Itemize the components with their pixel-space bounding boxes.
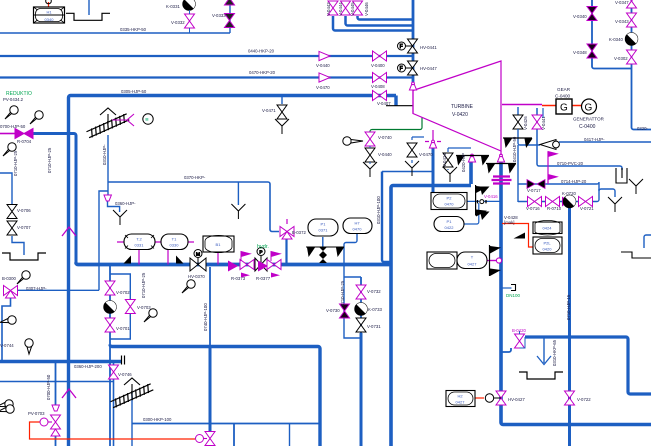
branch to drain x238 bbox=[237, 182, 239, 205]
magenta vessel link T2/T1 bbox=[117, 241, 194, 243]
valve V-0441 magenta below gear bbox=[532, 115, 542, 129]
svg-text:V-0707: V-0707 bbox=[17, 225, 31, 230]
vessel T2-0331 bbox=[124, 234, 155, 250]
valve V-0703 bbox=[125, 300, 135, 314]
svg-text:0420: 0420 bbox=[543, 247, 553, 252]
drain Y sample bbox=[629, 179, 643, 194]
oil line x631 bbox=[632, 0, 651, 130]
svg-text:0470-HKP-20: 0470-HKP-20 bbox=[249, 70, 276, 75]
valves V-0706 V-0707 bbox=[7, 205, 17, 236]
svg-text:F: F bbox=[400, 66, 403, 72]
bearing drain stub x543 bbox=[542, 108, 544, 118]
svg-text:V-0440: V-0440 bbox=[316, 63, 330, 68]
pipe to GEAR drains x537 bbox=[537, 108, 622, 170]
R-0373 bowtie bbox=[240, 260, 254, 270]
valve V-0424 bbox=[443, 153, 453, 167]
sample cooler box bbox=[616, 168, 627, 183]
svg-text:0710-HJP-25: 0710-HJP-25 bbox=[340, 280, 345, 306]
vertical texts bbox=[13, 2, 571, 400]
svg-text:0370-HKP-: 0370-HKP- bbox=[184, 175, 206, 180]
svg-text:V-0721: V-0721 bbox=[580, 206, 594, 211]
thin line y171.5 bbox=[382, 171, 433, 173]
ejector bbox=[540, 140, 559, 150]
svg-text:V-0722: V-0722 bbox=[577, 397, 591, 402]
svg-text:0310-HJP-100: 0310-HJP-100 bbox=[376, 196, 381, 224]
svg-text:0740-HJP-100: 0740-HJP-100 bbox=[203, 303, 208, 331]
svg-text:K-0733: K-0733 bbox=[368, 307, 382, 312]
magenta goblet1 feed bbox=[425, 130, 441, 142]
svg-text:HV-0427: HV-0427 bbox=[508, 397, 525, 402]
check V-0348 bbox=[587, 44, 597, 58]
drain V-0471 bbox=[275, 119, 289, 134]
thin line y148 bbox=[448, 147, 471, 149]
basin right bbox=[519, 372, 563, 379]
magenta node to header bbox=[489, 260, 499, 262]
vessel P1-0422 bbox=[434, 217, 464, 232]
magenta node circle bbox=[496, 258, 501, 263]
magenta flag lower bbox=[548, 175, 557, 185]
magenta drop T1 bbox=[167, 250, 169, 265]
valve V-0722 bbox=[565, 391, 575, 405]
svg-text:0470: 0470 bbox=[445, 202, 455, 207]
magenta funnel drain x108 bbox=[104, 195, 111, 201]
svg-text:V-0333: V-0333 bbox=[212, 13, 226, 18]
svg-text:0410-HJP-50: 0410-HJP-50 bbox=[512, 136, 517, 162]
svg-text:V-0730: V-0730 bbox=[326, 308, 340, 313]
green line turbine drain bbox=[370, 113, 422, 133]
drain Y V-0440 bbox=[363, 162, 377, 177]
svg-text:H1: H1 bbox=[46, 10, 52, 15]
pump K-0331 bbox=[183, 0, 198, 10]
vent column x132 bbox=[131, 392, 133, 446]
valve V-0400 bbox=[373, 51, 387, 61]
valve HV-0427 bbox=[485, 391, 506, 405]
drain arrow leg x544 bbox=[543, 337, 545, 363]
R-0377 bowtie bbox=[267, 260, 281, 270]
pipe 0470-HKP-20 bbox=[0, 76, 413, 78]
valve V-0347 bbox=[627, 0, 637, 8]
pennant flag V-0448 bbox=[480, 187, 490, 221]
valve V-0343 bbox=[627, 13, 637, 27]
flag T1 bbox=[176, 256, 184, 264]
valve column x230 bbox=[229, 0, 231, 33]
svg-text:V-0701: V-0701 bbox=[116, 326, 130, 331]
svg-text:B-0300: B-0300 bbox=[2, 276, 16, 281]
svg-text:0335-HKP-50: 0335-HKP-50 bbox=[120, 27, 147, 32]
svg-text:PV-0703: PV-0703 bbox=[28, 411, 45, 416]
trip valve at inlet bbox=[409, 82, 416, 113]
valve V-0732 bbox=[356, 285, 366, 299]
black seat line turbine inlet bbox=[386, 105, 413, 107]
valve V-0470 bbox=[407, 143, 417, 157]
svg-text:V-0424: V-0424 bbox=[442, 153, 447, 167]
seal row y201.5 bbox=[518, 189, 599, 202]
pipe 0710-HJP-25 x344 bbox=[344, 233, 361, 338]
vessel 0424 box bbox=[533, 220, 562, 235]
header to reduction bbox=[76, 263, 391, 265]
svg-text:P1: P1 bbox=[321, 222, 327, 227]
valve HV-0370 bbox=[190, 250, 206, 272]
goblet trip 3 bbox=[497, 154, 504, 162]
svg-text:0360-HJP-200: 0360-HJP-200 bbox=[74, 364, 102, 369]
valve V-0740 bbox=[365, 132, 375, 146]
svg-text:0330: 0330 bbox=[170, 243, 180, 248]
svg-text:V-0445: V-0445 bbox=[350, 2, 355, 16]
magenta stem B-0372 bbox=[286, 219, 288, 224]
valve B-0372 bbox=[280, 227, 294, 240]
svg-text:V-0717: V-0717 bbox=[527, 188, 541, 193]
svg-text:V-0400: V-0400 bbox=[371, 63, 385, 68]
pump P-0700 bbox=[104, 298, 119, 313]
balloon B-0300 bbox=[17, 271, 30, 284]
vessel H2-0427 bbox=[446, 391, 475, 407]
valve R-0710 bbox=[546, 197, 560, 207]
exhaust A x433 bbox=[432, 148, 435, 193]
valve pair V-0717 bbox=[527, 180, 545, 189]
magenta flag pole x548 bbox=[547, 152, 549, 184]
svg-text:0710-HJP-15: 0710-HJP-15 bbox=[566, 294, 571, 320]
orifice stack P1-0371 bbox=[319, 247, 327, 263]
magenta feed left edge bbox=[0, 133, 15, 135]
basin top bbox=[66, 13, 110, 20]
svg-text:0710-PVC-20: 0710-PVC-20 bbox=[557, 161, 584, 166]
svg-text:0360-HJP-: 0360-HJP- bbox=[115, 201, 136, 206]
svg-text:0710-HJP-25: 0710-HJP-25 bbox=[47, 147, 52, 173]
drain Y right1 bbox=[608, 197, 622, 212]
goblet trip 2 bbox=[468, 154, 475, 162]
vessel inner labels bbox=[45, 10, 553, 405]
condensate header 0740 bbox=[110, 345, 318, 347]
red tick tank H1 bbox=[48, 2, 50, 7]
pipe 0360-HJP-200 bbox=[0, 360, 122, 363]
balloons bottom-left pair bbox=[0, 400, 13, 408]
pipe 0700 PV column bbox=[55, 362, 57, 406]
svg-text:GENERATTOR: GENERATTOR bbox=[573, 117, 605, 122]
exhaust B x391 bbox=[391, 186, 471, 446]
drain Y V-0470 bbox=[405, 161, 419, 176]
svg-text:C-0400: C-0400 bbox=[579, 124, 596, 130]
vessel T-0427 capsule bbox=[457, 252, 487, 269]
vessel P1-0371 bbox=[308, 219, 338, 236]
HV-0441 valve bbox=[398, 39, 418, 53]
x210 below valve bbox=[209, 445, 211, 446]
svg-text:P2L: P2L bbox=[543, 241, 551, 246]
svg-text:V-0347: V-0347 bbox=[615, 0, 629, 5]
svg-text:V-0340: V-0340 bbox=[573, 14, 587, 19]
check valves V-0333 column bbox=[225, 0, 235, 28]
svg-text:V-0348: V-0348 bbox=[573, 50, 587, 55]
svg-text:V-0441: V-0441 bbox=[541, 116, 546, 130]
feed arrow K-0720 bbox=[562, 197, 570, 207]
pump K-0720 bbox=[563, 193, 578, 208]
drain arrow bbox=[537, 356, 551, 365]
svg-text:V-0746: V-0746 bbox=[118, 372, 132, 377]
svg-text:HV-0441: HV-0441 bbox=[420, 45, 437, 50]
svg-text:TURBINE: TURBINE bbox=[451, 104, 474, 110]
bypass valve line 2 bbox=[346, 16, 414, 26]
V-0470 drain stub bbox=[412, 137, 424, 163]
svg-text:B-0420: B-0420 bbox=[512, 328, 526, 333]
svg-text:V-0444: V-0444 bbox=[338, 2, 343, 16]
flow chevron x69 up1 bbox=[62, 227, 76, 236]
oil cooler line x592 bbox=[592, 0, 632, 69]
magenta capsule 0427 link bbox=[457, 260, 497, 262]
svg-text:DN100: DN100 bbox=[506, 293, 521, 298]
thin header y381.5 bbox=[0, 381, 114, 383]
valve V-0701 bbox=[105, 318, 115, 332]
arrow connector 0440 bbox=[319, 51, 330, 60]
V-0746 column x113.5 bbox=[113, 362, 115, 446]
svg-text:0331: 0331 bbox=[135, 243, 145, 248]
svg-text:PV-0434.2: PV-0434.2 bbox=[3, 97, 24, 102]
vessel P2L-0420 box bbox=[533, 237, 562, 254]
svg-text:B-0372: B-0372 bbox=[292, 230, 306, 235]
balloon near V-0703 bbox=[144, 309, 157, 322]
red level line 0420 bbox=[502, 224, 533, 248]
shaft red gear-generator bbox=[542, 105, 582, 107]
svg-text:0422: 0422 bbox=[445, 225, 455, 230]
turbine exhaust leg bbox=[500, 151, 502, 155]
red instrument circle above tank bbox=[46, 0, 52, 4]
svg-text:0417-HJP-: 0417-HJP- bbox=[584, 137, 605, 142]
valve V-0730 bbox=[340, 304, 350, 318]
svg-text:R-0377: R-0377 bbox=[256, 276, 271, 281]
pipe R-0704 branch bbox=[33, 134, 76, 265]
valve B-0420 bbox=[515, 331, 526, 348]
bypass valves V-044x top bbox=[328, 1, 363, 15]
drain Y V-0424 bbox=[443, 167, 457, 182]
valve V-0471 bbox=[277, 105, 287, 119]
svg-text:P: P bbox=[259, 250, 262, 256]
valve V-0702 bbox=[105, 281, 115, 295]
svg-text:V-0426: V-0426 bbox=[523, 116, 528, 130]
svg-text:0427: 0427 bbox=[468, 262, 478, 267]
bypass valve line 1 bbox=[333, 16, 413, 31]
svg-text:T.2: T.2 bbox=[136, 237, 142, 242]
svg-text:HV-0447: HV-0447 bbox=[420, 66, 437, 71]
vessel H7-0470 bbox=[343, 218, 372, 234]
valve R-0704 bbox=[15, 129, 33, 139]
valve V-0746 bbox=[109, 365, 119, 379]
valve V-0302 bbox=[627, 50, 637, 64]
svg-text:V-0470: V-0470 bbox=[316, 85, 330, 90]
balloons mid-left bbox=[3, 143, 16, 156]
svg-text:0440-HKP-20: 0440-HKP-20 bbox=[248, 49, 275, 54]
right edge hook bbox=[644, 235, 651, 248]
sample branch x99 bbox=[99, 191, 108, 290]
svg-text:V-0703: V-0703 bbox=[137, 305, 151, 310]
svg-text:0420-HJP: 0420-HJP bbox=[461, 153, 466, 172]
svg-text:V-0471: V-0471 bbox=[262, 108, 276, 113]
HV-0447 valve bbox=[398, 61, 418, 75]
instrument circle ≡ bbox=[143, 114, 153, 124]
balloons left low bbox=[0, 316, 16, 324]
svg-text:V-0702: V-0702 bbox=[116, 290, 130, 295]
valve V-0426 below gear bbox=[513, 107, 523, 131]
magenta flag upper bbox=[548, 152, 557, 162]
pipe 0307-HJP bbox=[17, 289, 99, 291]
reducer connector bbox=[478, 200, 487, 204]
B-0372 drop bbox=[285, 238, 287, 265]
drain header x210 thick bbox=[209, 346, 212, 431]
magenta drop vessel box bbox=[217, 252, 219, 265]
balloon HV-0370 bbox=[182, 280, 195, 293]
svg-text:0700-HJP-50: 0700-HJP-50 bbox=[0, 124, 26, 129]
PV-0703 valve bbox=[40, 405, 61, 436]
svg-text:0427: 0427 bbox=[456, 400, 466, 405]
pipe 0714-HJP-20 bbox=[518, 182, 615, 197]
svg-text:F: F bbox=[400, 44, 403, 50]
svg-text:T1: T1 bbox=[172, 237, 177, 242]
hydr valve actuator bbox=[255, 248, 267, 272]
pennant bar vertical P2 bbox=[476, 185, 487, 217]
svg-text:V-0343: V-0343 bbox=[615, 19, 629, 24]
svg-text:0310-HJP-: 0310-HJP- bbox=[102, 144, 107, 165]
riser x320 down bbox=[318, 347, 320, 446]
vessel box B bbox=[203, 235, 234, 252]
arrow connector 0470 bbox=[319, 73, 330, 82]
drain column x361 thick bbox=[360, 333, 363, 446]
valve B-0300 3way bbox=[4, 286, 18, 299]
magenta pitot bbox=[112, 114, 134, 126]
svg-text:R-0710: R-0710 bbox=[547, 206, 562, 211]
R-0377 arrow bbox=[258, 261, 268, 272]
vessel P2-0470 bbox=[431, 193, 467, 210]
svg-text:REDUKTIO: REDUKTIO bbox=[6, 91, 32, 97]
svg-text:≡: ≡ bbox=[145, 117, 149, 123]
pennant bar 3 bbox=[503, 138, 533, 148]
svg-text:V-0706: V-0706 bbox=[17, 208, 31, 213]
svg-text:0305-HJP-50: 0305-HJP-50 bbox=[121, 89, 147, 94]
drain column x361 bbox=[360, 277, 362, 333]
left drain валve column x12 bbox=[0, 173, 24, 255]
goblet trip 1 bbox=[429, 140, 436, 148]
branch y277 bbox=[344, 276, 361, 278]
svg-text:0700-HJP-50: 0700-HJP-50 bbox=[46, 374, 51, 400]
valve V-0716 bbox=[528, 197, 542, 207]
balloon V-0744 bbox=[25, 339, 33, 354]
hatch vent 1 bbox=[86, 108, 130, 139]
svg-text:K-0331: K-0331 bbox=[166, 4, 180, 9]
check V-0340 bbox=[587, 7, 597, 21]
DN100 stub bbox=[500, 287, 512, 289]
turbine exhaust main x501 bbox=[501, 162, 651, 425]
svg-text:K-0340: K-0340 bbox=[609, 37, 623, 42]
pipe 0305-HJP-50 main steam bbox=[69, 96, 397, 446]
svg-text:V-0408: V-0408 bbox=[371, 84, 385, 89]
V-0703 rejoin bbox=[110, 314, 130, 339]
svg-text:0714-HJP-20: 0714-HJP-20 bbox=[561, 179, 587, 184]
svg-text:V-0416: V-0416 bbox=[484, 194, 498, 199]
drain stub V-0471 bbox=[281, 96, 283, 105]
vessel T1-0330 bbox=[161, 234, 188, 250]
svg-text:R-0373: R-0373 bbox=[231, 276, 246, 281]
svg-text:K-0720: K-0720 bbox=[562, 191, 576, 196]
pump K-0340 bbox=[625, 30, 640, 45]
svg-text:G: G bbox=[585, 103, 593, 114]
turbine V-0420 bbox=[413, 61, 501, 151]
instrument trumpet bbox=[343, 137, 363, 145]
pump K-0733 bbox=[355, 300, 370, 315]
drain Y x120 bbox=[113, 210, 127, 225]
funnel drain path bbox=[108, 191, 120, 212]
DN100 bracket bbox=[511, 285, 516, 291]
spec break bbox=[122, 356, 125, 365]
vent line x89 bbox=[88, 0, 90, 15]
pump K-0720 drop bbox=[568, 208, 571, 446]
svg-text:P2: P2 bbox=[447, 196, 453, 201]
svg-text:HV-0370: HV-0370 bbox=[188, 274, 205, 279]
pennant bar x489 upper bbox=[490, 245, 502, 276]
right basin channel bbox=[621, 252, 651, 258]
gland steam x518 bbox=[518, 131, 540, 145]
svg-text:B1: B1 bbox=[216, 242, 222, 247]
red link H2-0427 bbox=[475, 397, 484, 399]
svg-text:0340: 0340 bbox=[45, 17, 55, 22]
red control PV-0703 bbox=[30, 422, 196, 439]
bypass x382 bbox=[382, 172, 391, 263]
svg-text:V-0332: V-0332 bbox=[171, 20, 185, 25]
instrument balloons top-left bbox=[5, 106, 18, 119]
svg-text:0710-HJP-25: 0710-HJP-25 bbox=[141, 272, 146, 298]
svg-text:H2: H2 bbox=[457, 394, 463, 399]
valve V-0440 bbox=[365, 146, 375, 164]
svg-text:V-0731: V-0731 bbox=[367, 324, 381, 329]
svg-text:0371: 0371 bbox=[319, 228, 329, 233]
flags R-0373 bbox=[241, 252, 250, 278]
flag T2 bbox=[124, 256, 132, 264]
R-0373 arrow bbox=[228, 261, 238, 272]
drop from B-0300 bbox=[2, 298, 11, 362]
flow chevron x69 up2 bbox=[62, 389, 76, 398]
vessel box T-0427 left bbox=[427, 252, 457, 269]
hatch vent 2 bbox=[110, 378, 154, 409]
svg-text:V-0302: V-0302 bbox=[614, 56, 628, 61]
svg-text:G: G bbox=[560, 103, 568, 114]
svg-text:0307-HJP-: 0307-HJP- bbox=[26, 286, 47, 291]
svg-text:0300-HKP-100: 0300-HKP-100 bbox=[143, 417, 172, 422]
svg-text:V-0440: V-0440 bbox=[378, 152, 392, 157]
valve V-0721 bbox=[579, 197, 593, 207]
branch x234 bbox=[233, 424, 235, 446]
valve V-0332 bbox=[185, 10, 195, 33]
flags R-0377 bbox=[271, 252, 280, 278]
GEAR box C-0400 bbox=[556, 99, 572, 114]
svg-text:0470: 0470 bbox=[353, 227, 363, 232]
svg-text:M: M bbox=[196, 252, 200, 258]
magenta drop T2 bbox=[138, 250, 140, 265]
T2 vessel line bbox=[109, 266, 111, 446]
pipe 0440-HKP-20 bbox=[0, 55, 413, 57]
svg-text:V-0446: V-0446 bbox=[364, 2, 369, 16]
pennant bar 1 bbox=[456, 156, 489, 166]
valve V-0407 bbox=[373, 91, 387, 101]
P1-0371 drop bbox=[322, 237, 324, 247]
svg-text:V-0732: V-0732 bbox=[367, 289, 381, 294]
branch V-0703 bbox=[110, 274, 130, 299]
svg-text:V-0443: V-0443 bbox=[326, 2, 331, 16]
pipe 0335-HKP-50 bbox=[0, 32, 230, 34]
tank H1-0340 bbox=[34, 7, 65, 23]
svg-text:0424: 0424 bbox=[543, 226, 553, 231]
drain Y 0370 bbox=[231, 204, 245, 219]
vessel P2 outlet y201.4 bbox=[465, 200, 500, 202]
svg-text:R-0704: R-0704 bbox=[17, 139, 32, 144]
drain header x210 bbox=[209, 267, 211, 346]
valve V-0408 bbox=[373, 73, 387, 83]
svg-text:V-0716: V-0716 bbox=[526, 206, 540, 211]
svg-text:[mak]: [mak] bbox=[504, 220, 515, 225]
